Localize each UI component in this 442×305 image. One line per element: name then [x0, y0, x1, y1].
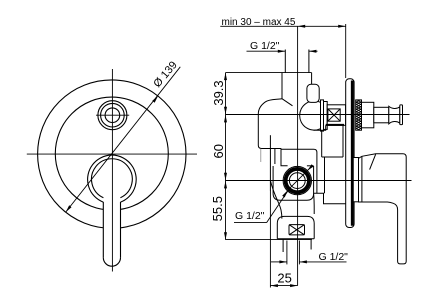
handle collar	[352, 158, 358, 202]
top dim left arrow	[298, 25, 306, 28]
spool end flange	[400, 105, 403, 125]
outlet section box diagonal 1	[289, 225, 305, 235]
body chamfer edge	[282, 99, 293, 106]
knob crosshair horizontal	[96, 114, 129, 116]
handle stem right edge	[120, 202, 122, 258]
handle stem bottom cap	[103, 258, 120, 267]
G1/2 top dim right arrow	[309, 50, 317, 53]
handle stem left edge	[102, 202, 104, 258]
cartridge dome arc	[300, 101, 321, 130]
washer ring 2	[324, 102, 328, 130]
vertical dimension line	[225, 73, 227, 240]
top dim right arrow	[338, 25, 346, 28]
diverter outer thin circle	[283, 166, 311, 194]
cartridge section box	[328, 109, 340, 121]
G1/2 bottom arrow right-pointing	[279, 260, 287, 263]
outlet stub right wall	[310, 239, 312, 250]
body top face to port edge	[311, 73, 313, 85]
dim 25 left extension	[269, 191, 271, 288]
hub seam	[361, 156, 363, 202]
washer ring 1	[321, 100, 324, 131]
dim arrow up at 72.6	[224, 73, 227, 81]
handle hub and lever	[359, 154, 407, 264]
left S-curve to outlet hump	[270, 181, 282, 219]
dimension Ø139 diagonal line	[66, 67, 181, 212]
dim 25 left arrow	[270, 284, 278, 287]
handle base outer circle	[88, 155, 137, 202]
cartridge sleeve bottom heavy edge	[326, 124, 344, 126]
G1/2 top dim left line	[247, 50, 286, 52]
svg-text:G 1/2": G 1/2"	[319, 251, 349, 263]
cartridge section box diagonal 1	[328, 109, 340, 121]
boss stem	[274, 149, 276, 165]
G1/2 mid underline	[234, 222, 267, 224]
wall plate	[346, 79, 354, 228]
behind-plate block upper	[322, 130, 343, 193]
cartridge sleeve	[327, 105, 345, 126]
diverter knob inner circle	[105, 108, 120, 123]
body step block right of bell	[281, 149, 317, 193]
top outlet port	[307, 84, 319, 102]
body bell shoulder arc	[258, 99, 282, 149]
outer plate circle	[38, 80, 186, 228]
diverter diagonal arrow	[307, 164, 313, 170]
dim 25 right arrow	[290, 284, 298, 287]
svg-text:G 1/2": G 1/2"	[250, 40, 280, 52]
behind-plate block lower	[314, 193, 346, 204]
under-sleeve step	[314, 125, 326, 130]
plate top extension line	[345, 24, 347, 78]
inlet pipe right wall	[308, 50, 310, 73]
cartridge axis line	[226, 114, 410, 116]
nut body	[362, 102, 374, 128]
diverter boss top right	[307, 165, 314, 167]
hub chamfer line	[370, 154, 376, 169]
svg-text:60: 60	[211, 144, 226, 158]
dim 25 line	[270, 285, 297, 287]
diverter boss body	[273, 166, 314, 200]
front view horizontal centerline	[27, 153, 197, 155]
top dimension line min30-max45	[220, 25, 345, 27]
G1/2 mid leader	[267, 189, 290, 223]
bottom reference line	[226, 239, 312, 241]
left body lower vertical	[269, 135, 271, 191]
spool end	[389, 106, 400, 124]
G1/2 bottom leader underline	[299, 261, 346, 263]
svg-text:G 1/2": G 1/2"	[235, 210, 265, 222]
G1/2 bottom short line	[271, 261, 287, 263]
inner plate circle	[55, 97, 168, 210]
hidden edge left	[260, 149, 262, 162]
svg-text:39.3: 39.3	[211, 80, 226, 105]
outlet extension line right	[298, 241, 300, 265]
inlet pipe left wall	[284, 50, 286, 73]
diverter bold ring	[286, 169, 309, 192]
cartridge section box diagonal 2	[328, 109, 340, 121]
outlet stub left wall	[282, 239, 284, 252]
handle base inner circle	[92, 159, 133, 198]
diverter knob outer circle	[98, 101, 127, 130]
G1/2 mid leader arrow	[282, 190, 287, 197]
dim arrow down at 239.8	[224, 232, 227, 240]
behind-plate seam	[342, 125, 344, 157]
G1/2 bottom arrow left-pointing	[299, 260, 307, 263]
diverter axis line	[226, 180, 412, 182]
dim arrows at 114.5	[224, 107, 227, 115]
dim arrows at 180.5	[224, 173, 227, 181]
wall plate heavy right edge	[351, 81, 354, 226]
knurled nut	[356, 100, 362, 130]
svg-text:25: 25	[277, 270, 291, 285]
svg-text:55.5: 55.5	[210, 196, 225, 221]
diverter inner thin circle	[289, 173, 305, 189]
cartridge dome face	[320, 102, 322, 128]
side view vertical centerline	[297, 26, 299, 285]
shaft step	[374, 107, 389, 123]
diverter boss top left	[281, 148, 288, 165]
diverter knob middle circle	[101, 103, 125, 127]
dimension Ø139 arrow lower-left	[66, 205, 72, 212]
front view vertical centerline	[111, 69, 113, 272]
outlet bottom face	[277, 238, 314, 240]
svg-text:min 30 – max 45: min 30 – max 45	[222, 17, 296, 28]
outlet extension line left	[286, 241, 288, 265]
top reference line	[226, 72, 312, 74]
G1/2 top dim left arrow	[278, 50, 286, 53]
outlet section box	[289, 225, 305, 235]
outlet hump	[277, 216, 314, 238]
body top block left edge	[281, 72, 283, 98]
handle stem white mask	[103, 196, 120, 267]
dimension Ø139 arrow upper-right	[152, 96, 158, 103]
diverter diagonal	[288, 167, 311, 190]
outlet section box diagonal 2	[289, 225, 305, 235]
right S-curve to outlet hump	[313, 193, 316, 214]
G1/2 top dim right line	[309, 50, 318, 52]
